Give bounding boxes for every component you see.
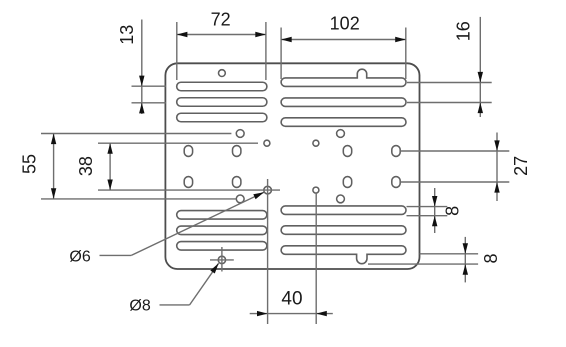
svg-text:Ø8: Ø8 xyxy=(129,298,150,315)
svg-text:16: 16 xyxy=(453,21,473,41)
svg-text:27: 27 xyxy=(511,156,531,176)
svg-text:40: 40 xyxy=(281,289,302,310)
svg-text:Ø6: Ø6 xyxy=(69,249,90,266)
svg-text:8: 8 xyxy=(481,253,501,263)
svg-text:72: 72 xyxy=(211,10,231,30)
svg-text:102: 102 xyxy=(330,14,360,34)
svg-text:55: 55 xyxy=(20,154,40,174)
svg-text:13: 13 xyxy=(117,25,137,45)
svg-text:38: 38 xyxy=(76,156,96,176)
svg-text:8: 8 xyxy=(443,206,463,216)
